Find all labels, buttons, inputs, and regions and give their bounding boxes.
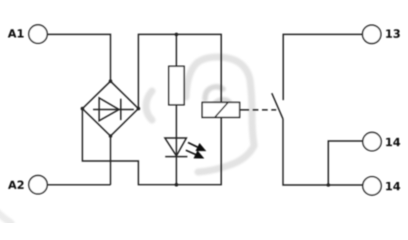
- watermark ring right side: [250, 80, 254, 145]
- wire A1 to bridge top: [47, 34, 110, 81]
- watermark arrow fletch 1: [205, 87, 223, 99]
- wire branch up to upper 14: [328, 141, 363, 185]
- label 13: [386, 29, 400, 38]
- resistor R: [169, 66, 184, 105]
- watermark blur filter: [0, 0, 1, 1]
- switch blade (NO contact): [272, 93, 283, 119]
- node 14 branch junction: [327, 183, 331, 187]
- watermark logo ring (center): [0, 57, 254, 223]
- bridge diode triangle: [99, 98, 119, 121]
- wire switch common down and right to 14: [283, 119, 363, 185]
- label A1: [8, 29, 24, 37]
- terminal 13: [363, 25, 381, 43]
- wire A2 horizontal: [47, 184, 110, 186]
- LED cathode bar: [165, 156, 187, 158]
- watermark ring bottom arc: [198, 146, 254, 172]
- node bottom rail / LED tap: [175, 183, 179, 187]
- terminal 14 upper: [363, 132, 381, 150]
- relay coil K: [202, 102, 239, 117]
- label 14 upper: [386, 138, 400, 146]
- wire 13 to switch fixed contact: [283, 34, 362, 100]
- node bridge left: [81, 107, 85, 111]
- node bridge bottom: [109, 134, 113, 138]
- watermark fragment (bottom-left corner): [0, 211, 11, 223]
- bridge diode axis: [93, 109, 134, 111]
- LED triangle: [165, 138, 187, 156]
- node bridge right: [137, 107, 141, 111]
- terminal A1: [29, 25, 47, 43]
- terminal A2: [29, 176, 47, 194]
- wire resistor-LED branch vertical: [175, 34, 177, 184]
- label 14 lower: [386, 182, 400, 190]
- wire DC+ rail: bridge right up, across top, down to coil: [138, 34, 221, 108]
- node bridge top: [109, 79, 113, 83]
- watermark ring top arc: [186, 57, 250, 97]
- node top rail / resistor tap: [175, 33, 179, 37]
- LED arrow 1: [188, 143, 206, 152]
- watermark ring left arc: [146, 91, 152, 120]
- circuit soft filter: [0, 0, 1, 1]
- watermark arrow fletch 2: [213, 100, 229, 111]
- relay coil diagonal: [215, 102, 228, 117]
- bridge diode cathode bar: [120, 99, 122, 120]
- LED arrow 2: [186, 150, 205, 158]
- wire DC- rail: bridge left down, staircase, across bottom, up to coil: [82, 109, 221, 185]
- wire bridge bottom to A2 wire: [110, 136, 112, 185]
- terminal 14 lower: [363, 177, 381, 195]
- dashed actuation link: [240, 109, 277, 111]
- label A2: [8, 181, 24, 189]
- bridge rectifier outline: [82, 81, 138, 136]
